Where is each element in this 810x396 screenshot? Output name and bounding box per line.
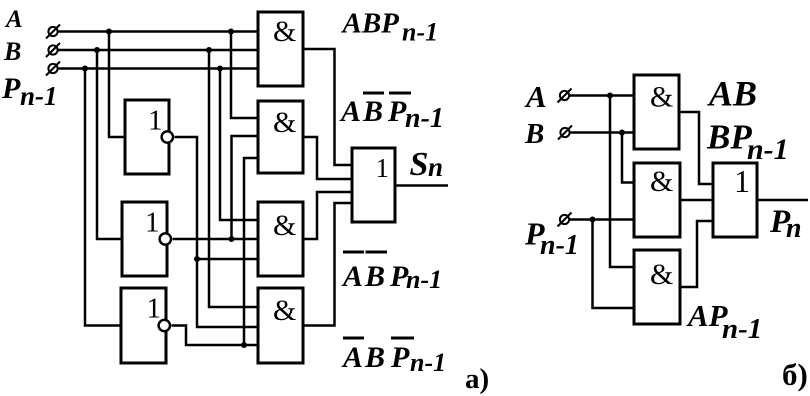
wire: B column to AND4 input 1 (209, 50, 258, 307)
wire: AND1 output to OR input 1 (303, 49, 352, 165)
wire: AND-b3 output to OR-b input 3 (680, 221, 713, 287)
svg-text:n-1: n-1 (406, 265, 442, 294)
svg-text:P: P (390, 341, 410, 374)
wire: B column to AND-b2 input 1 (622, 133, 634, 183)
AND gate D1.3 (Abar Bbar P) (258, 202, 303, 276)
svg-text:B: B (364, 341, 385, 374)
wire: AND-b1 output to OR-b input 1 (679, 112, 713, 184)
wire: P tap down to NOT3 input (85, 69, 121, 326)
AND gate D1.2 (A Bbar Pbar) (258, 101, 303, 173)
svg-text:&: & (273, 15, 296, 48)
AND gate D1.1 (ABP) (258, 12, 303, 86)
svg-text:AB: AB (707, 74, 757, 114)
wire: input line A (right circuit) (569, 94, 634, 97)
svg-text:&: & (273, 294, 296, 327)
OR gate D3 (sum Sn) (352, 148, 395, 222)
svg-text:&: & (273, 106, 296, 139)
wire: P column to AND3 input 1 (220, 69, 258, 221)
wire: B tap down to NOT2 input (97, 50, 122, 239)
NOT gate D2.3 (P invert) (121, 288, 166, 363)
svg-text:&: & (650, 165, 673, 198)
wire: OR-b output Pn (757, 199, 808, 202)
wire: NOT1 output to A-bar column (175, 137, 259, 327)
NOT gate D2.1 (A invert) (125, 100, 169, 174)
svg-text:P: P (387, 95, 407, 128)
svg-text:1: 1 (148, 105, 163, 137)
svg-text:n-1: n-1 (722, 313, 762, 345)
svg-text:n-1: n-1 (747, 133, 789, 166)
svg-text:а): а) (465, 363, 489, 395)
input terminal A (right) (560, 91, 569, 100)
junction dot P line / NOT3 tap (82, 66, 88, 72)
AND gate D4.1 (AB right) (634, 75, 679, 149)
svg-text:1: 1 (734, 163, 750, 199)
input terminal B (right) (560, 128, 569, 137)
svg-text:A: A (341, 260, 363, 293)
junction dot P line / P column (right) (590, 217, 596, 223)
junction dot B line / NOT2 tap (94, 47, 100, 53)
svg-text:n-1: n-1 (402, 18, 438, 47)
svg-text:n-1: n-1 (405, 103, 444, 134)
overbar A of AND3 term (343, 251, 364, 254)
wire: AND3 output to OR input 3 (303, 192, 352, 239)
svg-text:&: & (650, 258, 673, 291)
wire: AND4 output to OR input 4 (303, 203, 352, 326)
wire: A tap down to NOT1 input (109, 32, 125, 138)
svg-text:S: S (410, 146, 429, 183)
wire: input line B (left circuit) (58, 49, 259, 52)
svg-text:n-1: n-1 (540, 230, 579, 261)
svg-text:A: A (341, 341, 363, 374)
svg-text:BP: BP (706, 118, 752, 157)
junction dot B line / B column (206, 47, 212, 53)
inverter bubble NOT3 (159, 320, 170, 331)
svg-text:B: B (364, 260, 385, 293)
wire: NOT3 output P-bar to AND4 input 3 (172, 326, 259, 346)
overbar B of AND2 term (363, 92, 384, 95)
svg-text:&: & (273, 209, 296, 242)
junction dot P line / P column (217, 66, 223, 72)
svg-text:n: n (428, 152, 443, 182)
svg-text:B: B (3, 37, 21, 66)
svg-text:1: 1 (147, 293, 162, 325)
svg-text:&: & (650, 81, 673, 114)
wire: A-bar branch to AND3 input 3 (197, 258, 258, 261)
OR gate D5 (carry Pn) (713, 163, 757, 237)
svg-text:P: P (1, 72, 21, 105)
wire: P column to AND-b3 input 2 (593, 220, 635, 309)
overbar P of AND2 term (389, 92, 411, 95)
input terminal P (right) (560, 215, 569, 224)
AND gate D4.2 (BP right) (634, 163, 680, 237)
overbar B of AND3 term (366, 251, 388, 254)
wire: input line P n-1 (right circuit) (569, 218, 634, 221)
wire: B-bar column up to AND2 input 2 (232, 136, 259, 239)
input terminal A (left) (48, 27, 57, 36)
svg-text:A: A (4, 6, 23, 33)
wire: OR gate output Sn (395, 184, 448, 187)
junction dot A line / A column (228, 29, 234, 35)
wire: NOT2 output B-bar to AND3 input 2 (173, 238, 259, 241)
wire: input line P n-1 (left circuit) (58, 67, 259, 70)
junction dot A line / NOT1 tap (106, 29, 112, 35)
wire: P-bar column up to AND2 input 3 (244, 158, 258, 345)
wire: A column to AND-b3 input 1 (610, 96, 634, 268)
svg-text:n-1: n-1 (20, 81, 58, 111)
svg-text:A: A (524, 79, 547, 114)
AND gate D4.3 (AP right) (634, 250, 680, 324)
NOT gate D2.2 (B invert) (122, 202, 167, 276)
svg-text:A: A (339, 95, 361, 128)
svg-text:б): б) (782, 357, 808, 392)
junction dot A-bar column / AND3 branch (194, 256, 200, 262)
inverter bubble NOT1 (162, 131, 173, 142)
overbar P of AND4 term (391, 337, 414, 340)
wire: AND2 output to OR input 2 (303, 137, 352, 179)
junction dot B line / B column (right) (619, 130, 625, 136)
wire: input line B (right circuit) (570, 131, 635, 134)
AND gate D1.4 (Abar B Pbar) (258, 288, 303, 363)
junction dot B-bar column on NOT2 output (229, 236, 235, 242)
svg-text:ABP: ABP (341, 8, 400, 40)
svg-text:B: B (524, 118, 544, 150)
input terminal B (left) (48, 45, 57, 54)
wire: AND-b2 output to OR-b input 2 (680, 199, 713, 202)
junction dot P-bar column on NOT3 output (241, 342, 247, 348)
overbar A of AND4 term (343, 337, 364, 340)
input terminal P (left) (48, 64, 57, 73)
junction dot A line / A column (right) (607, 93, 613, 99)
svg-text:n: n (786, 213, 802, 244)
svg-text:1: 1 (145, 207, 160, 239)
wire: A column to AND2 input 1 (231, 32, 258, 119)
inverter bubble NOT2 (160, 233, 171, 244)
wire: input line A (left circuit) (57, 30, 258, 33)
svg-text:B: B (362, 95, 383, 128)
svg-text:1: 1 (376, 153, 390, 183)
svg-text:n-1: n-1 (410, 348, 446, 377)
